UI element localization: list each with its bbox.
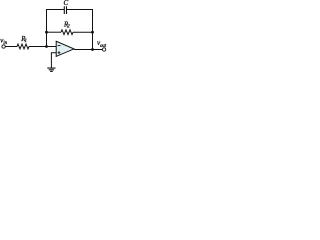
svg-text:1: 1 bbox=[25, 39, 27, 44]
wire right vertical (feedback right leg) bbox=[92, 9, 94, 50]
output terminal v_out bbox=[102, 48, 105, 51]
op-amp U1 triangle bbox=[56, 41, 74, 56]
op-amp minus sign bbox=[58, 45, 61, 47]
wire left vertical (feedback left leg) bbox=[46, 9, 48, 47]
wire non-inverting input to ground bbox=[51, 53, 56, 68]
svg-text:out: out bbox=[100, 44, 107, 49]
wire top-left corner to capacitor bbox=[47, 9, 64, 11]
input terminal v_in bbox=[2, 45, 5, 48]
capacitor C plates bbox=[64, 6, 66, 14]
wire R2 row right bbox=[73, 31, 93, 33]
wire v_in to R1 bbox=[5, 46, 17, 48]
junction dot output node bbox=[91, 48, 94, 51]
wire capacitor to top-right corner bbox=[67, 9, 93, 11]
resistor R2 bbox=[61, 30, 73, 35]
op-amp plus sign bbox=[58, 51, 61, 54]
junction dot R2 right bbox=[91, 31, 94, 34]
wire R2 row left bbox=[47, 31, 62, 33]
svg-text:C: C bbox=[64, 0, 69, 7]
svg-text:in: in bbox=[3, 41, 7, 46]
junction dot node A (inverting input) bbox=[45, 45, 48, 48]
resistor R1 bbox=[17, 44, 29, 49]
ground bbox=[47, 68, 55, 71]
junction dot R2 left bbox=[45, 31, 48, 34]
wire op-amp output bbox=[74, 49, 102, 51]
wire R1 to op-amp inverting input bbox=[29, 46, 56, 48]
